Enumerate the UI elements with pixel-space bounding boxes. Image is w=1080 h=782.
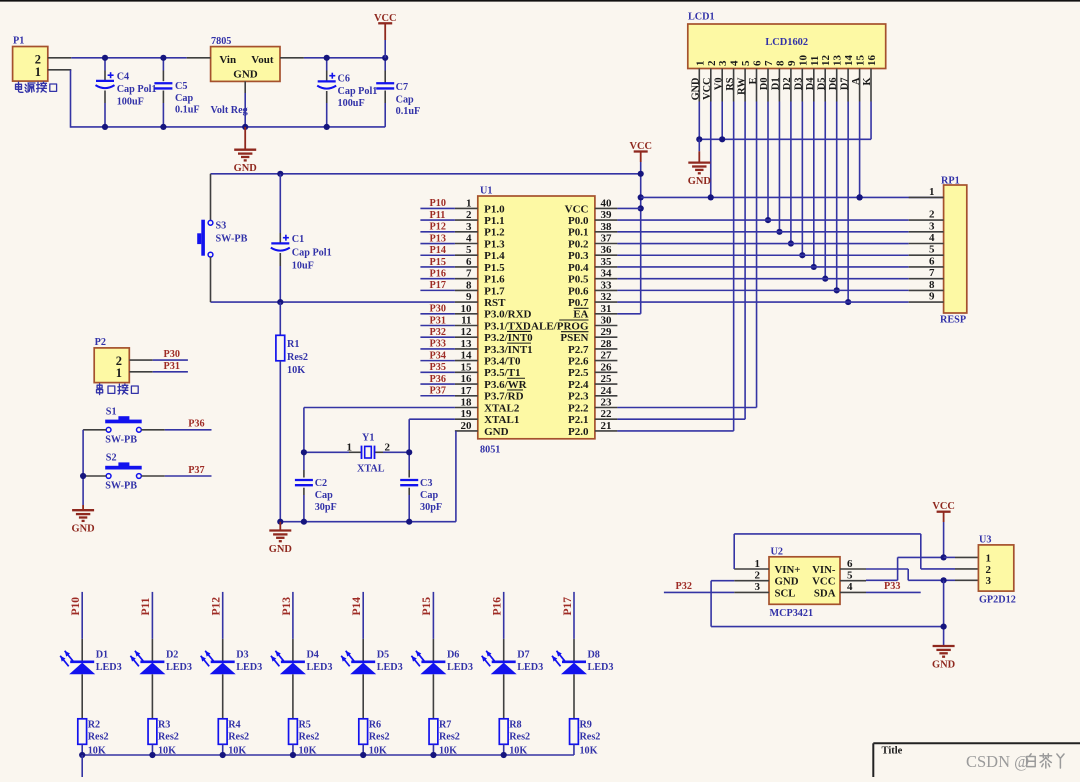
ground symbol U3 — [933, 646, 955, 657]
svg-text:SW-PB: SW-PB — [105, 434, 137, 445]
svg-text:D5: D5 — [377, 650, 389, 661]
svg-text:34: 34 — [601, 268, 613, 280]
svg-text:P1.7: P1.7 — [484, 285, 505, 297]
svg-text:12: 12 — [820, 55, 832, 67]
svg-text:15: 15 — [461, 361, 473, 373]
svg-text:4: 4 — [729, 60, 741, 66]
junction — [406, 519, 412, 525]
wire LCD V0 — [721, 102, 723, 140]
svg-text:2: 2 — [706, 60, 718, 66]
svg-text:LED3: LED3 — [236, 662, 262, 673]
svg-text:R4: R4 — [228, 720, 240, 731]
wire 7805 gnd down — [244, 93, 246, 127]
svg-text:P1: P1 — [13, 36, 24, 47]
resistor R3 symbol — [148, 719, 157, 745]
junction — [324, 124, 330, 130]
RP1 pin 9 — [909, 291, 944, 303]
U1 pin 3 P1.2 — [455, 221, 505, 239]
svg-text:8: 8 — [466, 279, 472, 291]
node P10 led column — [70, 592, 82, 639]
svg-text:P1.3: P1.3 — [484, 238, 505, 250]
svg-text:D8: D8 — [587, 650, 599, 661]
LCD1 pin 2 VCC — [702, 60, 718, 102]
RP1 pin 1 — [909, 186, 944, 198]
U3 pin3 stub wire — [955, 579, 978, 581]
U1 pin 37 P0.2 — [568, 233, 617, 251]
svg-text:1: 1 — [694, 61, 706, 67]
U1 pin 9 RST — [455, 291, 506, 309]
wire net P32 — [664, 591, 734, 593]
svg-text:P0.1: P0.1 — [568, 227, 588, 239]
svg-text:R5: R5 — [298, 720, 310, 731]
U1 pin 36 P0.3 — [568, 244, 617, 262]
svg-text:P13: P13 — [281, 597, 293, 616]
svg-text:D5: D5 — [817, 78, 828, 91]
adc U2 MCP3421 — [769, 557, 840, 605]
svg-text:VIN+: VIN+ — [775, 564, 801, 576]
svg-text:R3: R3 — [158, 720, 170, 731]
wire xtal gnd rail — [280, 521, 456, 523]
junction — [788, 240, 794, 246]
svg-text:C6: C6 — [338, 74, 350, 85]
svg-text:4: 4 — [847, 581, 853, 593]
LCD1 pin 12 D5 — [817, 55, 833, 102]
svg-text:P3.3/INT1: P3.3/INT1 — [484, 344, 533, 356]
LCD1 pin 15 A — [851, 55, 867, 102]
svg-text:S3: S3 — [216, 221, 227, 232]
node P11 led column — [140, 592, 152, 639]
svg-text:VCC: VCC — [565, 203, 589, 215]
S1 left stub — [83, 429, 106, 431]
svg-text:LCD1: LCD1 — [688, 12, 715, 23]
LCD1 pin 16 K — [862, 55, 878, 102]
junction — [277, 299, 283, 305]
regulator U 7805 — [211, 47, 280, 82]
svg-text:P16: P16 — [492, 597, 504, 616]
svg-text:D1: D1 — [96, 650, 108, 661]
svg-text:15: 15 — [855, 55, 867, 67]
svg-text:2: 2 — [385, 441, 391, 453]
svg-text:2: 2 — [929, 209, 935, 221]
svg-text:XTAL1: XTAL1 — [484, 414, 519, 426]
diode D6 LED3 — [411, 639, 446, 719]
svg-text:11: 11 — [461, 315, 471, 327]
svg-text:Res2: Res2 — [439, 732, 460, 743]
junction — [857, 194, 863, 200]
svg-text:10: 10 — [797, 55, 809, 67]
wire GND pin20 — [454, 430, 456, 432]
wire vcc blue — [384, 40, 386, 58]
junction — [382, 55, 388, 61]
svg-text:7: 7 — [466, 268, 472, 280]
svg-text:17: 17 — [461, 385, 473, 397]
svg-text:1: 1 — [116, 366, 122, 380]
svg-text:D3: D3 — [236, 650, 248, 661]
wire P0.4 bus — [617, 266, 908, 268]
svg-text:LED3: LED3 — [306, 662, 332, 673]
U1 pin 40 VCC — [565, 197, 618, 215]
junction — [799, 252, 805, 258]
svg-text:16: 16 — [461, 373, 473, 385]
svg-text:14: 14 — [843, 55, 855, 67]
capacitor C5 — [162, 58, 164, 71]
wire net P17 — [420, 289, 455, 291]
svg-text:36: 36 — [601, 244, 613, 256]
RP1 pin 5 — [909, 244, 944, 256]
svg-text:18: 18 — [461, 396, 473, 408]
capacitor C5 symbol — [154, 83, 172, 88]
capacitor C7 symbol — [376, 83, 394, 88]
U1 pin 21 P2.0 — [568, 420, 617, 438]
svg-text:P2.3: P2.3 — [568, 391, 589, 403]
wire net P10 — [420, 207, 455, 209]
wire LCD D2 — [790, 102, 792, 244]
node P14 led column — [351, 592, 363, 639]
junction — [290, 752, 296, 758]
svg-text:GND: GND — [234, 163, 257, 174]
svg-text:1: 1 — [929, 186, 935, 198]
svg-text:P33: P33 — [430, 339, 446, 350]
svg-text:C2: C2 — [315, 478, 327, 489]
svg-text:0.1uF: 0.1uF — [396, 106, 421, 117]
svg-text:P37: P37 — [188, 465, 204, 476]
svg-text:P3.5/T1: P3.5/T1 — [484, 367, 520, 379]
wire U2 pin6 to U3 pin3 — [866, 568, 908, 570]
svg-text:9: 9 — [786, 60, 798, 66]
svg-text:P3.4/T0: P3.4/T0 — [484, 356, 521, 368]
svg-text:LED3: LED3 — [377, 662, 403, 673]
svg-text:30pF: 30pF — [420, 502, 442, 513]
svg-text:P31: P31 — [164, 361, 180, 372]
U2 pin 3 SCL — [734, 581, 795, 599]
label 电源接口 — [16, 82, 57, 92]
svg-text:Cap: Cap — [420, 490, 438, 501]
svg-text:VIN-: VIN- — [812, 564, 836, 576]
RP1 pin 4 — [909, 232, 944, 244]
U2 pin 6 VIN- — [812, 558, 866, 576]
svg-text:6: 6 — [752, 60, 764, 66]
wire R3 to rail — [151, 744, 153, 755]
junction — [277, 171, 283, 177]
LCD1 pin 3 V0 — [713, 60, 729, 102]
svg-text:R7: R7 — [439, 720, 451, 731]
wire R8 to rail — [503, 744, 505, 755]
U1 pin 7 P1.6 — [455, 268, 505, 286]
resistor R4 symbol — [218, 719, 227, 745]
svg-text:Cap: Cap — [175, 93, 193, 104]
U1 pin 12 P3.2/INT0 — [455, 326, 533, 344]
ground XTAL — [279, 522, 281, 531]
U1 pin 4 P1.3 — [455, 233, 505, 251]
junction — [941, 577, 947, 583]
svg-text:8: 8 — [929, 279, 935, 291]
svg-text:LED3: LED3 — [166, 662, 192, 673]
svg-text:D3: D3 — [794, 78, 805, 91]
U1 pin 33 P0.6 — [568, 279, 617, 297]
wire bottom rail — [71, 126, 386, 128]
wire R4 to rail — [222, 744, 224, 755]
wire net P11 — [420, 219, 455, 221]
svg-text:P36: P36 — [430, 374, 446, 385]
svg-text:P3.6/WR: P3.6/WR — [484, 379, 528, 391]
svg-text:10K: 10K — [579, 745, 597, 756]
svg-text:P3.2/INT0: P3.2/INT0 — [484, 332, 533, 344]
svg-text:P11: P11 — [140, 597, 152, 615]
svg-text:P35: P35 — [430, 362, 446, 373]
svg-text:P3.7/RD: P3.7/RD — [484, 391, 523, 403]
svg-text:P30: P30 — [164, 349, 180, 360]
svg-text:P33: P33 — [884, 581, 900, 592]
svg-text:28: 28 — [601, 338, 613, 350]
wire U2 pin5 to VCC — [866, 579, 898, 581]
switch S3 — [210, 174, 212, 221]
U1 pin 25 P2.4 — [568, 373, 617, 391]
RP1 pin 6 — [909, 255, 944, 267]
wire LCD D1 — [778, 102, 780, 232]
wire pin31 EA — [617, 313, 640, 315]
wire LCD D5 — [824, 102, 826, 279]
svg-text:P10: P10 — [70, 597, 82, 616]
svg-text:Res2: Res2 — [228, 732, 249, 743]
svg-text:E: E — [748, 77, 759, 84]
junction — [79, 752, 85, 758]
7805 Vin stub — [187, 57, 211, 59]
wire net P35 — [420, 371, 455, 373]
svg-text:3: 3 — [755, 581, 761, 593]
node P15 led column — [421, 592, 433, 639]
overline PROG — [559, 319, 588, 321]
svg-text:9: 9 — [466, 291, 472, 303]
svg-text:C4: C4 — [117, 72, 129, 83]
wire net P36 — [420, 383, 455, 385]
svg-text:U2: U2 — [771, 547, 783, 558]
svg-text:32: 32 — [601, 291, 613, 303]
wire net P36 — [165, 429, 212, 431]
junction — [857, 194, 863, 200]
junction — [834, 287, 840, 293]
svg-text:MCP3421: MCP3421 — [770, 608, 814, 619]
svg-text:P0.0: P0.0 — [568, 215, 589, 227]
svg-text:25: 25 — [601, 373, 613, 385]
svg-text:Volt Reg: Volt Reg — [211, 105, 248, 116]
diode D5 LED3 — [341, 639, 376, 719]
resistor R6 symbol — [359, 719, 368, 745]
wire P2.2 to E — [617, 407, 756, 409]
wire net P15 — [420, 266, 455, 268]
ground symbol LCD — [688, 163, 710, 174]
wire net P37 — [420, 395, 455, 397]
capacitor C4 — [104, 58, 106, 71]
svg-text:C5: C5 — [175, 81, 187, 92]
svg-text:P1.4: P1.4 — [484, 250, 505, 262]
U1 pin 18 XTAL2 — [455, 396, 520, 414]
junction — [149, 752, 155, 758]
svg-text:13: 13 — [461, 338, 473, 350]
svg-text:P2.1: P2.1 — [568, 414, 588, 426]
svg-text:4: 4 — [466, 233, 472, 245]
ground symbol 7805 — [234, 150, 256, 161]
svg-text:R9: R9 — [579, 720, 591, 731]
svg-text:R1: R1 — [287, 339, 299, 350]
svg-text:P12: P12 — [211, 597, 223, 616]
svg-text:33: 33 — [601, 279, 613, 291]
svg-text:13: 13 — [832, 55, 844, 67]
svg-text:R8: R8 — [509, 720, 521, 731]
svg-text:Cap Pol1: Cap Pol1 — [292, 248, 332, 259]
crystal Y1 — [304, 451, 349, 453]
wire LCD RS — [733, 102, 735, 431]
junction — [776, 229, 782, 235]
svg-text:GND: GND — [775, 576, 799, 588]
wire U2 pin2 gnd — [711, 580, 734, 582]
svg-text:20: 20 — [461, 420, 473, 432]
wire vcc red mid — [640, 152, 642, 163]
capacitor C1 symbol — [271, 235, 290, 251]
U1 pin 20 GND — [455, 420, 509, 438]
overline INT0 — [507, 330, 531, 332]
junction — [822, 276, 828, 282]
svg-text:P37: P37 — [430, 386, 446, 397]
svg-text:ALE/PROG: ALE/PROG — [531, 320, 589, 332]
wire P0.1 bus — [617, 231, 908, 233]
svg-text:9: 9 — [929, 291, 935, 303]
power VCC right — [937, 511, 951, 513]
svg-text:0.1uF: 0.1uF — [175, 105, 200, 116]
junction — [160, 55, 166, 61]
svg-text:7: 7 — [929, 267, 935, 279]
svg-text:1: 1 — [347, 441, 353, 453]
wire net P16 — [420, 278, 455, 280]
svg-text:RESP: RESP — [940, 315, 966, 326]
junction — [242, 124, 248, 130]
svg-text:26: 26 — [601, 361, 613, 373]
junction — [811, 264, 817, 270]
svg-text:GND: GND — [72, 524, 95, 535]
power VCC mid — [634, 150, 648, 152]
svg-text:2: 2 — [986, 564, 992, 576]
svg-text:SDA: SDA — [814, 587, 836, 599]
svg-text:P14: P14 — [430, 245, 446, 256]
svg-text:K: K — [862, 78, 873, 86]
LCD1 pin 8 D1 — [771, 60, 787, 102]
sensor U3 GP2D12 — [978, 545, 1013, 591]
svg-text:P31: P31 — [430, 315, 446, 326]
svg-text:7: 7 — [763, 60, 775, 66]
wire XTAL2 — [304, 407, 455, 409]
ground symbol XTAL — [269, 531, 291, 542]
junction — [719, 136, 725, 142]
wire P0.5 bus — [617, 278, 908, 280]
svg-text:D7: D7 — [839, 78, 850, 91]
svg-text:Title: Title — [882, 746, 903, 757]
svg-text:D6: D6 — [828, 78, 839, 91]
svg-text:Cap Pol1: Cap Pol1 — [117, 84, 157, 95]
svg-text:RS: RS — [725, 77, 736, 90]
svg-text:6: 6 — [929, 255, 935, 267]
RP1 pin 3 — [909, 220, 944, 232]
capacitor C2 symbol — [295, 480, 313, 485]
U1 pin 24 P2.3 — [568, 385, 617, 403]
junction — [638, 205, 644, 211]
svg-text:Res2: Res2 — [369, 732, 390, 743]
wire VCC rail mid — [211, 173, 641, 175]
junction — [102, 55, 108, 61]
wire LCD E — [756, 102, 758, 408]
svg-text:Cap: Cap — [396, 95, 414, 106]
wire P0.3 bus — [617, 254, 908, 256]
U1 pin 15 P3.5/T1 — [455, 361, 521, 379]
svg-text:35: 35 — [601, 256, 613, 268]
svg-text:P0.3: P0.3 — [568, 250, 589, 262]
wire Vout rail — [304, 57, 385, 59]
svg-text:D7: D7 — [517, 650, 529, 661]
U1 pin 29 PSEN — [560, 326, 617, 344]
svg-text:10K: 10K — [287, 365, 305, 376]
svg-text:8051: 8051 — [480, 445, 500, 456]
svg-text:5: 5 — [929, 244, 935, 256]
junction — [220, 752, 226, 758]
svg-text:VCC: VCC — [374, 13, 397, 24]
svg-text:C1: C1 — [292, 234, 304, 245]
wire led gnd rail — [82, 754, 574, 756]
wire vcc to U3 pin1 — [944, 556, 955, 558]
svg-text:VCC: VCC — [629, 141, 652, 152]
U1 pin 6 P1.5 — [455, 256, 505, 274]
wire net P32 — [420, 336, 455, 338]
wire xtal right down — [408, 419, 410, 470]
U1 pin 14 P3.4/T0 — [455, 350, 521, 368]
ground LCD — [698, 139, 700, 151]
svg-text:P36: P36 — [188, 419, 204, 430]
power VCC top — [378, 22, 392, 24]
wire LCD D6 — [836, 102, 838, 291]
svg-text:LED3: LED3 — [447, 662, 473, 673]
svg-text:C3: C3 — [420, 478, 432, 489]
wire P0.2 bus — [617, 243, 908, 245]
LCD1 pin 1 GND — [691, 61, 707, 102]
capacitor C6 symbol — [317, 73, 336, 89]
svg-text:3: 3 — [466, 221, 472, 233]
U3 pin2 stub wire — [955, 568, 978, 570]
svg-text:3: 3 — [717, 60, 729, 66]
U1 pin 39 P0.0 — [568, 209, 617, 227]
P2 pin2 stub — [129, 359, 152, 361]
svg-text:P0.4: P0.4 — [568, 262, 589, 274]
wire net P13 — [420, 243, 455, 245]
diode D4 LED3 — [271, 639, 306, 719]
svg-text:XTAL2: XTAL2 — [484, 402, 520, 414]
svg-text:GND: GND — [688, 176, 711, 187]
wire net P31 — [420, 325, 455, 327]
svg-text:31: 31 — [601, 303, 612, 315]
svg-text:Vout: Vout — [251, 54, 274, 66]
svg-text:8: 8 — [774, 60, 786, 66]
junction — [102, 124, 108, 130]
svg-text:6: 6 — [847, 558, 853, 570]
ground symbol S1S2 — [72, 510, 94, 521]
resistor R7 symbol — [429, 719, 438, 745]
wire vcc red — [384, 23, 386, 40]
svg-text:11: 11 — [809, 56, 821, 66]
svg-text:P2: P2 — [95, 337, 106, 348]
svg-text:D1: D1 — [771, 78, 782, 91]
svg-text:P32: P32 — [430, 327, 446, 338]
wire P1 pin1 down — [70, 70, 72, 128]
node P12 led column — [211, 592, 223, 639]
wire net P33 — [866, 591, 921, 593]
wire U2 pin1 loop — [733, 534, 735, 569]
wire LCD D0 — [767, 102, 769, 221]
